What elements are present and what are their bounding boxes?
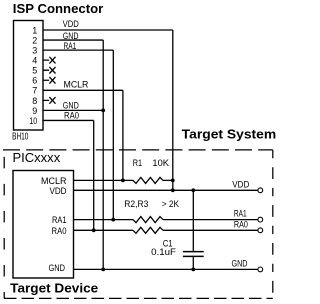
svg-text:RA1: RA1 (52, 215, 67, 225)
capacitor C1 (183, 252, 204, 257)
wire RA0 from pin 10 (horizontal) (43, 119, 94, 121)
svg-text:PICxxxx: PICxxxx (13, 151, 61, 165)
wire C1 branch lower (192, 257, 194, 269)
no-connect X on pin 8 (43, 97, 56, 104)
wire GND from pin 2 (horizontal) (43, 39, 103, 41)
junction C1 x GND rail (191, 268, 195, 272)
svg-text:8: 8 (32, 96, 37, 106)
svg-text:RA1: RA1 (234, 209, 247, 219)
wire R2 to RA1 terminal (163, 219, 258, 221)
svg-text:R2,R3: R2,R3 (124, 199, 148, 209)
wire RA1 to R2 (74, 219, 134, 221)
svg-text:10: 10 (29, 116, 37, 126)
wire RA0 (vertical drop) (93, 120, 95, 230)
junction C1 branch x VDD rail (191, 188, 195, 192)
Target System dashed boundary (left) (3, 150, 5, 299)
wire GND rail to terminal (74, 268, 258, 270)
resistor R3 (133, 227, 163, 233)
svg-text:9: 9 (32, 106, 37, 116)
svg-text:5: 5 (32, 66, 37, 76)
terminal RA0 (258, 228, 263, 233)
svg-text:MCLR: MCLR (41, 176, 67, 186)
wire RA1 (vertical drop) (112, 50, 114, 220)
wire MCLR to PIC pin (74, 179, 123, 181)
resistor R2 (133, 217, 163, 223)
svg-text:2: 2 (32, 35, 37, 45)
svg-text:RA0: RA0 (64, 111, 79, 121)
junction RA0 vertical x RA0 line (92, 228, 96, 232)
wire C1 branch upper (192, 190, 194, 251)
wire VDD rail to terminal (74, 189, 258, 191)
svg-text:BH10: BH10 (12, 131, 28, 143)
svg-text:7: 7 (32, 86, 37, 96)
wire RA1 from pin 3 (horizontal) (43, 49, 113, 51)
no-connect X on pin 4 (43, 57, 56, 64)
svg-text:GND: GND (63, 31, 79, 41)
wire VDD from pin 1 (horizontal) (43, 29, 173, 31)
svg-text:R1: R1 (133, 158, 142, 168)
svg-text:> 2K: > 2K (162, 199, 180, 209)
svg-text:RA0: RA0 (234, 219, 248, 229)
svg-text:10K: 10K (152, 158, 169, 168)
junction RA1 vertical x RA1 line (111, 218, 115, 222)
wire MCLR (vertical drop) (122, 90, 124, 180)
junction GND vertical x GND rail (101, 268, 105, 272)
svg-text:0.1uF: 0.1uF (151, 247, 176, 257)
wire MCLR from pin 7 (horizontal) (43, 89, 123, 91)
wire VDD (vertical drop) (172, 30, 174, 190)
wire GND (vertical drop) (102, 40, 104, 269)
svg-text:VDD: VDD (63, 19, 79, 29)
junction R1 x VDD vertical (171, 179, 175, 183)
svg-text:1: 1 (32, 25, 37, 35)
svg-text:VDD: VDD (232, 179, 249, 189)
svg-text:GND: GND (49, 263, 66, 273)
wire R3 to RA0 terminal (163, 229, 258, 231)
terminal RA1 (258, 217, 263, 222)
Target System dashed boundary (right) (272, 150, 274, 298)
no-connect X on pin 5 (43, 67, 56, 74)
connector BH10 box (14, 21, 44, 131)
IC U1 PICxxxx box (13, 171, 74, 279)
svg-text:Target Device: Target Device (10, 281, 98, 296)
Target System dashed boundary (top) (3, 149, 273, 151)
Target System dashed boundary (bottom) (4, 297, 273, 299)
svg-text:3: 3 (32, 46, 37, 56)
svg-text:ISP Connector: ISP Connector (13, 1, 104, 16)
terminal GND (258, 267, 263, 272)
svg-text:6: 6 (32, 76, 37, 86)
junction MCLR x R1 (121, 179, 125, 183)
junction GND pin9 x GND vertical (101, 109, 105, 113)
terminal VDD (258, 188, 263, 193)
svg-text:MCLR: MCLR (64, 79, 89, 89)
svg-text:VDD: VDD (50, 186, 67, 196)
wire GND from pin 9 (43, 109, 103, 111)
svg-text:RA1: RA1 (64, 41, 77, 51)
no-connect X on pin 6 (43, 77, 56, 84)
svg-text:RA0: RA0 (52, 226, 67, 236)
svg-text:Target System: Target System (182, 126, 277, 141)
junction VDD vertical x VDD rail (171, 188, 175, 192)
svg-text:4: 4 (32, 56, 37, 66)
svg-text:GND: GND (63, 101, 79, 111)
wire RA0 to R3 (74, 229, 134, 231)
resistor R1 (123, 177, 173, 183)
svg-text:GND: GND (232, 258, 248, 268)
